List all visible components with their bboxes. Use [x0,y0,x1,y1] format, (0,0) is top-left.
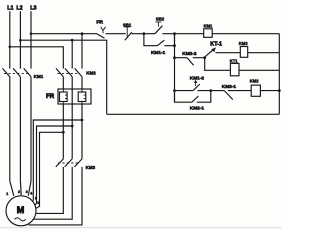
svg-text:KM1: KM1 [204,24,213,29]
wire L1 vertical top [9,11,11,68]
contactor KM3 linkage dashes [58,162,80,164]
svg-text:KM3-1: KM3-1 [222,84,237,90]
svg-text:1: 1 [6,192,8,196]
svg-text:6: 6 [37,201,39,205]
node junction dot after SB2 [173,32,176,35]
node junction dot KM2 pole3 tap [81,32,84,35]
wire L2 vertical top [19,11,21,68]
svg-text:KT1: KT1 [230,59,238,64]
wire KT branch down [205,58,231,71]
contact KT-1 arrow head [211,47,216,52]
svg-text:M: M [17,205,25,215]
wire L1 branch [10,47,64,69]
contactor KM1 main pole 1 [3,68,10,76]
contactor KM1 main pole 3 [24,68,31,76]
contact KM2-2 NC [175,58,205,65]
wire feed after FR [106,33,126,35]
wire KT-1 to KM3 coil [216,52,241,54]
node junction dot KM1-2 left [173,89,176,92]
svg-text:KM3: KM3 [86,165,96,170]
node junction dot jog C [62,131,65,134]
node junction dot KM1-2 right [209,89,212,92]
node junction dot jog B [71,125,74,128]
wire KM3 coil to right bus [248,52,280,54]
contactor KM3 pole 2 [65,159,73,167]
wire FR out pole2 [71,104,73,159]
wire FR out pole3 [81,104,83,159]
contactor KM3 pole 3 [75,159,83,167]
wire KM2 pole2 to FR [71,77,73,89]
wire SB1 to SB2 [132,33,155,35]
svg-text:KM1-2: KM1-2 [190,75,205,81]
svg-text:L1: L1 [7,6,13,12]
wire jog B to motor terminal 5 [35,126,72,205]
wire L2 return branch [20,40,106,114]
svg-text:KM2: KM2 [86,71,96,76]
node junction dot KM1-1 rejoin [173,44,176,47]
thermal relay FR power box [58,89,91,104]
contact KT-1 delayed NO [205,49,214,57]
thermal relay FR pass wire middle [71,89,73,104]
wire KM2 coil to right bus [260,90,279,92]
relay coil KM2 [251,85,260,96]
wire scan artifact faint line [0,227,282,229]
svg-text:KM1: KM1 [34,74,44,79]
relay coil KM3 [240,47,247,58]
pushbutton SB1 stop NC [125,32,132,40]
contactor KM2 linkage dashes [58,72,80,74]
wire jog C to motor terminal 6 [36,132,63,208]
contactor KM3 pole 1 [56,159,64,167]
contact KM1-2 arrow [195,82,197,86]
wire KM2 pole3 tap vertical [81,34,83,69]
node junction dot jog A [81,119,84,122]
contactor KM2 main pole 3 [75,68,82,76]
pushbutton SB1 stem and cap [124,27,130,37]
wire KM1 pole3 lower [28,77,31,196]
wire L3 vertical top [30,11,32,68]
node junction dot KT branch [203,56,206,59]
contact KM1-1 self holding branch [144,34,175,46]
svg-text:FR: FR [96,20,103,26]
pushbutton SB2 start NO [155,26,163,34]
wire SB2 to bus [162,33,203,35]
wire KM2 pole1 to FR [62,77,64,89]
wire L3 feed branch to control circuit [31,33,97,35]
svg-text:KM2: KM2 [250,78,259,83]
wire FR out pole1 [62,104,64,159]
wire KM1 pole2 lower [19,77,22,196]
contactor KM2 main pole 2 [65,68,72,76]
contactor KM1 main pole 2 [13,68,20,76]
relay coil KM1 [204,29,213,38]
contact KM3-1 NC [211,91,251,100]
svg-text:KM2-2: KM2-2 [182,51,197,57]
svg-text:SB1: SB1 [123,22,132,27]
wire KM3 pole2 lower to motor right [34,167,72,219]
svg-text:L3: L3 [30,6,36,12]
wire KM2 pole3 to FR [81,77,83,89]
wire bottom control bus [107,113,280,115]
thermal relay FR control NC contact [97,34,105,38]
wire KM1 pole1 lower [10,77,14,196]
thermal relay FR heater element 2 [78,92,86,102]
wire jog A to motor terminal 4 [33,120,82,201]
motor tilde symbol [15,218,26,221]
svg-text:5: 5 [35,197,37,201]
relay coil KT1 timer [230,63,239,75]
svg-text:KM3: KM3 [239,41,248,46]
svg-text:3: 3 [26,190,28,194]
node junction dot KM2-2 left [173,56,176,59]
wire right control bus [278,34,280,115]
svg-text:KM2-1: KM2-1 [190,106,205,112]
svg-text:4: 4 [30,191,32,195]
node junction dot L1 branch [9,46,12,49]
contactor KM1 linkage dashes [4,72,28,74]
svg-text:2: 2 [18,190,20,194]
svg-text:KM1-1: KM1-1 [151,50,166,56]
node junction dot KM2 pole2 tap [71,39,74,42]
motor M circle [6,196,36,226]
wire left control bus [174,34,176,102]
contact KM2-1 parallel branch [175,91,211,103]
svg-text:SB2: SB2 [156,16,165,21]
contact KM1-2 NO [175,84,211,91]
wire KT1 coil to right bus [239,69,279,71]
node junction dot L3 branch [30,32,33,35]
svg-text:KT-1: KT-1 [210,41,222,47]
node junction dot KM2 coil right [278,89,281,92]
wire KM2 pole2 tap vertical [71,40,73,68]
thermal relay FR heater element 1 [60,92,68,102]
node junction dot L2 branch [19,39,22,42]
svg-text:L2: L2 [16,6,22,12]
node junction dot after SB1 [143,32,146,35]
svg-text:FR: FR [46,93,55,100]
pushbutton SB2 stem and cap [155,22,161,27]
wire KM3 pole1 lower to motor right [36,167,63,213]
thermal relay FR control actuator [101,27,106,34]
contactor KM2 main pole 1 [56,68,63,76]
wire KM1 coil to right bus [212,33,279,35]
wire KM3 pole3 lower to motor right [29,167,83,225]
